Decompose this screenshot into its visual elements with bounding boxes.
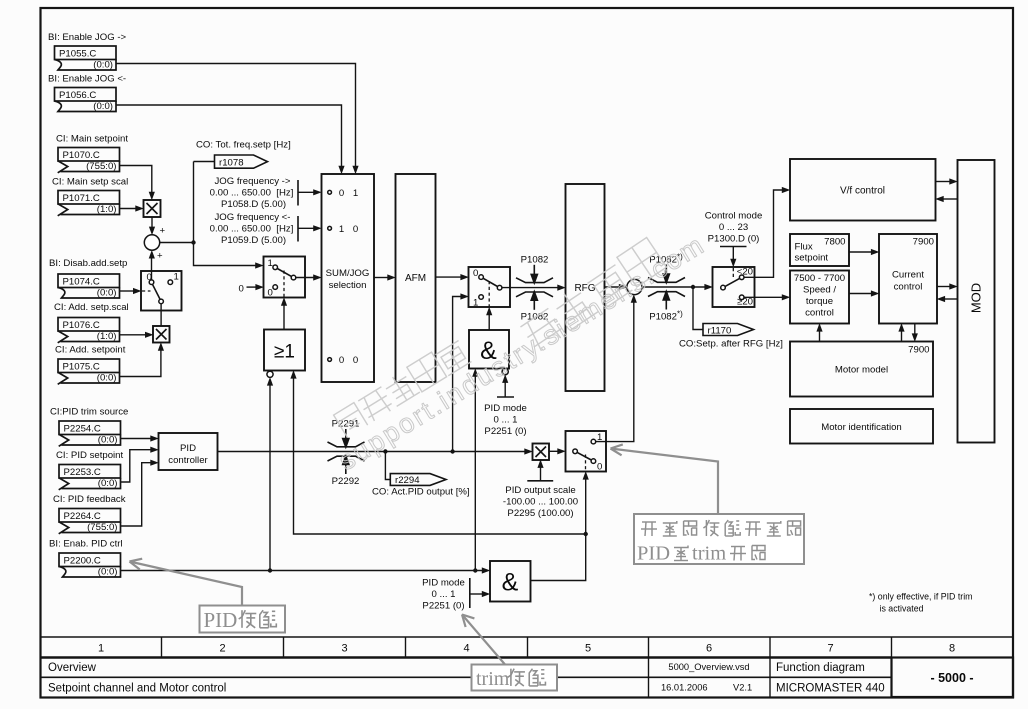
title block thick rule under numbers (41, 656, 892, 659)
connector P1070.C (58, 148, 120, 173)
wire S1 lever to X2 (160, 304, 162, 326)
Motor model box (790, 342, 933, 397)
AND gate 2 (490, 561, 531, 602)
svg-text:(0:0): (0:0) (98, 478, 118, 489)
svg-text:Setpoint channel and Motor con: Setpoint channel and Motor control (48, 683, 226, 695)
svg-text:P1071.C: P1071.C (63, 193, 100, 204)
limiter P2291/P2292 (328, 429, 365, 474)
svg-text:Motor identification: Motor identification (821, 422, 902, 433)
svg-text:P2292: P2292 (332, 476, 360, 487)
svg-text:P1082: P1082 (521, 255, 549, 266)
wire current to MOD (937, 286, 951, 288)
svg-text:CI: Add. setpoint: CI: Add. setpoint (55, 345, 126, 356)
svg-text:*) only effective, if PID trim: *) only effective, if PID trim (869, 592, 972, 602)
svg-text:0: 0 (473, 268, 478, 279)
svg-text:CI:PID trim source: CI:PID trim source (50, 407, 128, 418)
svg-text:0.00 ... 650.00 [Hz]: 0.00 ... 650.00 [Hz] (210, 224, 294, 235)
svg-text:CI: PID feedback: CI: PID feedback (53, 494, 126, 505)
wire S5 to V/f control (744, 190, 784, 277)
gray note box trim enable (472, 665, 558, 691)
RFG box (566, 184, 605, 391)
PID controller box (159, 433, 218, 470)
summing point 2 (627, 279, 642, 294)
svg-text:Function diagram: Function diagram (776, 662, 865, 674)
wire S5 to speed/torque control (744, 296, 784, 298)
wire P2253 to PID (121, 450, 153, 482)
watermark chinese brand (332, 337, 471, 438)
svg-text:1: 1 (339, 224, 344, 235)
svg-text:16.01.2006: 16.01.2006 (661, 683, 708, 693)
wire summing point to node and r1078/switch2 (160, 162, 258, 266)
svg-text:PID output scale: PID output scale (505, 485, 575, 496)
svg-text:r1170: r1170 (708, 325, 732, 336)
Speed/torque control box (790, 271, 849, 324)
svg-text:P1059.D (5.00): P1059.D (5.00) (221, 235, 286, 246)
svg-text:- 5000 -: - 5000 - (930, 671, 973, 685)
wire JOG1 to SUM/JOG (298, 191, 315, 193)
svg-text:0: 0 (268, 288, 273, 299)
switch S3 pid/afm select (469, 267, 511, 309)
connector output r1078 (215, 155, 268, 168)
svg-text:AFM: AFM (405, 273, 426, 284)
limiter P1082 input (516, 265, 553, 310)
svg-text:P1075.C: P1075.C (63, 362, 100, 373)
svg-text:(0:0): (0:0) (93, 60, 113, 71)
svg-text:control: control (805, 308, 834, 319)
svg-text:3: 3 (341, 643, 347, 655)
summing point 1 (144, 235, 159, 250)
switch S2 jog select (264, 257, 306, 299)
svg-text:CI: Main setp scal: CI: Main setp scal (52, 177, 128, 188)
svg-text:PID: PID (637, 543, 670, 565)
svg-text:PID: PID (204, 608, 238, 632)
cell: sheet number -5000- (892, 658, 1014, 698)
wire P2254 to PID (121, 438, 153, 440)
svg-text:(0:0): (0:0) (93, 101, 113, 112)
connector P2200.C (59, 553, 121, 578)
svg-text:P1055.C: P1055.C (59, 49, 96, 60)
Flux setpoint box (790, 234, 849, 266)
svg-text:(1:0): (1:0) (97, 331, 117, 342)
wire P1075 to X2 bottom (120, 349, 161, 377)
connector P1074.C (58, 274, 120, 299)
svg-text:control: control (894, 282, 923, 293)
node after limiter2 (691, 285, 695, 289)
svg-text:Control mode: Control mode (705, 211, 763, 222)
svg-text:CI: Main setpoint: CI: Main setpoint (56, 134, 128, 145)
svg-text:BI: Enable JOG ->: BI: Enable JOG -> (48, 32, 127, 43)
svg-text:0.00 ... 650.00 [Hz]: 0.00 ... 650.00 [Hz] (210, 188, 294, 199)
svg-text:6: 6 (706, 643, 712, 655)
wire P2264 to PID (121, 463, 153, 526)
multiplier X2 (153, 326, 170, 343)
wire AFM to S3 (436, 276, 463, 278)
multiplier X3 (533, 444, 550, 461)
connector P1076.C (58, 318, 120, 343)
MOD box (958, 160, 995, 443)
svg-text:BI: Disab.add.setp: BI: Disab.add.setp (49, 258, 127, 269)
svg-text:P2254.C: P2254.C (64, 424, 101, 435)
wire bar to AND1 bubble (504, 381, 506, 398)
terminal bar PID mode 2 (469, 578, 471, 608)
svg-text:CO:Setp. after RFG [Hz]: CO:Setp. after RFG [Hz] (679, 339, 783, 350)
svg-text:CO: Tot. freq.setp [Hz]: CO: Tot. freq.setp [Hz] (196, 140, 291, 151)
wire P1071 to multiplier X1 (120, 208, 138, 210)
svg-text:P1076.C: P1076.C (63, 320, 100, 331)
terminal bar PID mode 1 (497, 396, 514, 398)
OR gate >=1 (264, 330, 305, 378)
svg-text:r1078: r1078 (219, 157, 244, 168)
svg-text:PID mode: PID mode (484, 403, 527, 414)
svg-text:Motor model: Motor model (835, 365, 888, 376)
wire V/f to MOD (936, 181, 952, 183)
svg-text:Speed /: Speed / (803, 285, 836, 296)
svg-text:BI: Enable JOG <-: BI: Enable JOG <- (48, 74, 126, 85)
wire node to OR bubble (269, 383, 271, 570)
wire motor model to speed/torque (819, 329, 821, 341)
terminal bar JOG1 (297, 180, 299, 206)
svg-text:controller: controller (168, 455, 208, 466)
wire motor model to current control (901, 329, 903, 341)
svg-text:0: 0 (339, 188, 344, 199)
Current control box (879, 234, 937, 324)
svg-text:0: 0 (353, 224, 358, 235)
svg-text:7800: 7800 (824, 237, 845, 248)
svg-text:P2251 (0): P2251 (0) (484, 426, 526, 437)
wire node to AND1 (474, 374, 476, 570)
wire P1055 to SUM/JOG top (116, 64, 356, 169)
wire speed to current (849, 293, 873, 295)
svg-text:P1056.C: P1056.C (59, 90, 96, 101)
svg-text:7500 - 7700: 7500 - 7700 (794, 273, 845, 284)
connector P1071.C (58, 191, 120, 216)
terminal bar P1300 (720, 246, 747, 248)
svg-text:P2253.C: P2253.C (64, 467, 101, 478)
svg-text:-100.00 ... 100.00: -100.00 ... 100.00 (503, 497, 578, 508)
gray arrow to P2200 (130, 559, 243, 605)
svg-text:trim: trim (692, 543, 726, 565)
svg-text:+: + (160, 226, 166, 237)
svg-text:torque: torque (806, 296, 833, 307)
connector P2254.C (59, 421, 121, 446)
node trim line (584, 532, 588, 536)
connector P1056.C (55, 88, 117, 113)
node OR input (268, 568, 272, 572)
svg-text:P2200.C: P2200.C (64, 556, 101, 567)
gray note box PID enable (200, 606, 286, 633)
wire bar to X3 (540, 466, 542, 481)
node S3 branch (450, 449, 454, 453)
svg-text:(0:0): (0:0) (98, 567, 118, 578)
JOG frequency <- parameter text (210, 212, 294, 246)
svg-text:trim: trim (476, 668, 510, 690)
label Control mode (705, 211, 763, 245)
V/f control box (790, 159, 936, 221)
wire P1074 to S1 (120, 290, 135, 292)
connector P1075.C (58, 359, 120, 384)
svg-text:(0:0): (0:0) (97, 288, 117, 299)
svg-text:Flux: Flux (795, 242, 813, 253)
switch S5 control mode (713, 267, 755, 308)
svg-text:1: 1 (98, 643, 104, 655)
connector P2253.C (59, 465, 121, 490)
node at summing output (191, 240, 195, 244)
svg-text:≥20: ≥20 (737, 297, 753, 308)
wire bar to AND2 (470, 593, 484, 595)
switch S4 pid trim (566, 431, 607, 473)
svg-text:JOG frequency <-: JOG frequency <- (215, 212, 291, 223)
svg-text:7: 7 (827, 643, 833, 655)
wire MOD to current (943, 298, 957, 300)
wire S4 output to summing point 2 (596, 301, 634, 442)
svg-text:8: 8 (949, 643, 955, 655)
svg-text:PID: PID (180, 443, 196, 454)
wire PID output to scaler X3 (218, 451, 527, 453)
svg-text:P2264.C: P2264.C (64, 511, 101, 522)
svg-text:SUM/JOG: SUM/JOG (326, 268, 370, 279)
wire S2 to SUM/JOG (296, 277, 315, 279)
svg-text:0: 0 (339, 355, 344, 366)
svg-text:setpoint: setpoint (795, 253, 829, 264)
wire X1 to summing point (151, 217, 153, 229)
svg-text:CI: PID setpoint: CI: PID setpoint (56, 450, 124, 461)
svg-text:selection: selection (329, 280, 367, 291)
svg-text:PID mode: PID mode (422, 578, 465, 589)
wire P1056 to SUM/JOG top (116, 105, 342, 168)
wire X3 to S4 (549, 450, 559, 452)
svg-text:0: 0 (353, 355, 358, 366)
node AND1 input (473, 568, 477, 572)
svg-text:CO: Act.PID output [%]: CO: Act.PID output [%] (372, 487, 470, 498)
svg-text:2: 2 (219, 643, 225, 655)
svg-text:+: + (157, 251, 163, 262)
svg-text:P1074.C: P1074.C (63, 277, 100, 288)
svg-text:JOG frequency ->: JOG frequency -> (215, 176, 291, 187)
svg-text:V/f control: V/f control (840, 186, 885, 197)
svg-text:P1058.D (5.00): P1058.D (5.00) (221, 199, 286, 210)
svg-text:P2291: P2291 (332, 419, 360, 430)
wire node to r2294 (385, 452, 390, 480)
svg-text:0 ... 23: 0 ... 23 (719, 222, 748, 233)
column dividers (162, 637, 892, 697)
svg-text:is activated: is activated (880, 604, 924, 614)
svg-text:1: 1 (473, 298, 478, 309)
AFM box (396, 174, 436, 382)
connector P1055.C (55, 46, 117, 71)
title block top rule (41, 636, 1014, 638)
AND gate 1 (469, 330, 509, 375)
wire AND1 to S3 (488, 313, 490, 330)
wire S3 to RFG through limiter (502, 287, 559, 289)
wire trim line to OR gate (294, 376, 586, 534)
svg-text:5000_Overview.vsd: 5000_Overview.vsd (668, 662, 749, 672)
gray note box switch activates PID trim (634, 514, 804, 565)
wire P2200 enable line (121, 570, 484, 572)
label PID mode block1 (484, 403, 527, 437)
svg-text:1: 1 (353, 188, 358, 199)
node r2294 branch (383, 449, 387, 453)
svg-text:0: 0 (597, 462, 602, 473)
wire OR output to S2 (283, 304, 285, 330)
svg-text:MICROMASTER 440: MICROMASTER 440 (776, 683, 885, 695)
svg-text:7900: 7900 (913, 237, 934, 248)
svg-text:7900: 7900 (908, 345, 929, 356)
svg-text:MOD: MOD (969, 283, 984, 313)
svg-text:(1:0): (1:0) (97, 204, 117, 215)
wire AND2 output to S4 (531, 477, 586, 580)
svg-text:r2294: r2294 (395, 475, 420, 486)
wire P1076 to X2 (120, 334, 147, 336)
gray arrow to S4 (611, 444, 719, 514)
svg-text:CI: Add. setp.scal: CI: Add. setp.scal (54, 302, 129, 313)
svg-text:(755:0): (755:0) (86, 161, 116, 172)
wire SUM/JOG to AFM (374, 277, 389, 279)
wire P1070 to multiplier X1 (120, 166, 152, 195)
svg-text:1: 1 (174, 272, 179, 283)
svg-text:P1300.D (0): P1300.D (0) (708, 234, 760, 245)
svg-text:(755:0): (755:0) (87, 522, 117, 533)
svg-text:Overview: Overview (48, 662, 97, 674)
wire RFG to summing point 2 (605, 286, 621, 288)
terminal bar JOG2 (297, 216, 299, 242)
wire node to r1170 (693, 287, 703, 330)
limiter P1082 output (648, 265, 685, 310)
wire flux to current (849, 251, 873, 253)
svg-text:V2.1: V2.1 (733, 683, 752, 693)
wire P1300 to control switch (732, 247, 734, 262)
multiplier X1 (144, 200, 161, 217)
svg-text:Current: Current (892, 270, 924, 281)
connector P2264.C (59, 509, 121, 534)
svg-text:1: 1 (268, 258, 273, 269)
svg-text:BI: Enab. PID ctrl: BI: Enab. PID ctrl (49, 539, 123, 550)
Motor identification box (790, 409, 933, 444)
zone numbers (98, 643, 955, 655)
svg-text:5: 5 (585, 643, 591, 655)
title block rule under overview row (41, 676, 892, 678)
svg-text:(0:0): (0:0) (98, 435, 118, 446)
wire sum2 to control switch through limiter (642, 286, 706, 288)
svg-text:&: & (502, 569, 519, 597)
svg-text:0: 0 (239, 284, 244, 295)
svg-text:4: 4 (463, 643, 469, 655)
svg-text:P2295 (100.00): P2295 (100.00) (507, 508, 573, 519)
gray arrow to P2251 trim (462, 615, 505, 665)
connector output r1170 (703, 324, 754, 337)
svg-text:≥1: ≥1 (274, 342, 295, 363)
switch S1 add setpoint (141, 271, 182, 311)
SUM/JOG selection box (322, 174, 375, 382)
svg-text:(0:0): (0:0) (97, 373, 117, 384)
wire node up to S3 input 1 (453, 297, 463, 452)
svg-text:0 ... 1: 0 ... 1 (494, 415, 518, 426)
svg-text:0 ... 1: 0 ... 1 (432, 589, 456, 600)
label PID mode block2 (422, 578, 465, 612)
connector output r2294 (390, 474, 446, 487)
wire current control to motor model (914, 324, 916, 336)
watermark chinese forum (518, 237, 666, 353)
svg-text:P1070.C: P1070.C (63, 150, 100, 161)
label PID output scale (503, 485, 578, 519)
wire MOD to V/f (942, 198, 958, 200)
wire JOG2 to SUM/JOG (298, 227, 315, 229)
svg-text:<20: <20 (737, 267, 753, 278)
terminal bar P2295 (527, 480, 553, 482)
JOG frequency -> parameter text (210, 176, 294, 210)
svg-text:P2251 (0): P2251 (0) (422, 601, 464, 612)
wire switch1 up to summing point (151, 254, 153, 280)
